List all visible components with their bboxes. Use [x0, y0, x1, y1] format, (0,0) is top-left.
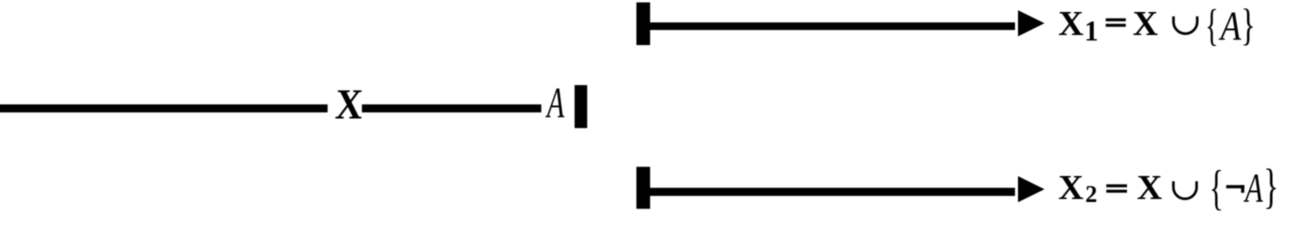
- negation sign: [1226, 185, 1244, 188]
- equals sign: [1106, 18, 1126, 21]
- equals sign: [1106, 184, 1127, 187]
- svg-text:X: X: [1058, 4, 1083, 43]
- svg-text:X: X: [1058, 168, 1083, 207]
- wire: [362, 104, 541, 112]
- svg-text:{: {: [1205, 0, 1218, 49]
- svg-text:2: 2: [1085, 182, 1097, 208]
- svg-text:}: }: [1264, 160, 1279, 213]
- svg-text:X: X: [1133, 4, 1158, 43]
- union symbol: [1174, 16, 1198, 33]
- svg-text:A: A: [1243, 164, 1262, 210]
- arrowhead: [1018, 176, 1045, 202]
- union symbol: [1173, 181, 1196, 198]
- svg-text:1: 1: [1084, 16, 1098, 47]
- branch bar: [575, 85, 588, 128]
- branch bar bottom: [636, 167, 650, 209]
- branch bar top: [636, 2, 650, 45]
- svg-text:X: X: [1137, 168, 1162, 207]
- svg-text:X: X: [334, 80, 364, 128]
- arrowhead: [1018, 10, 1045, 36]
- wire: [650, 188, 1015, 196]
- svg-text:A: A: [545, 79, 564, 126]
- svg-text:}: }: [1241, 1, 1255, 50]
- svg-text:A: A: [1218, 3, 1242, 49]
- svg-text:{: {: [1209, 161, 1223, 213]
- wire: [0, 104, 328, 112]
- wire: [650, 22, 1015, 30]
